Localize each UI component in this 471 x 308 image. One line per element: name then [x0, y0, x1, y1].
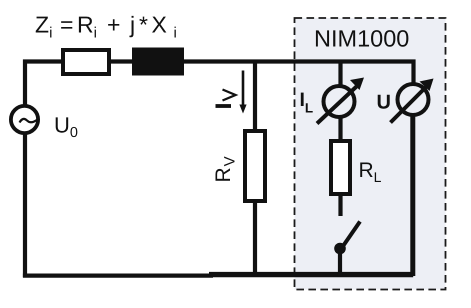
voltmeter U (circle with arrow) [391, 79, 434, 123]
wire left (below source down to bottom-left corner) [23, 133, 27, 277]
NIM1000 enclosure (dashed box) [295, 18, 446, 290]
wire ammeter to R_L [338, 118, 342, 141]
wire top (left corner to U-meter corner) [25, 62, 414, 108]
wire to ammeter I_L (from top wire down) [338, 62, 342, 86]
wire voltmeter down right side to bottom [410, 116, 415, 276]
svg-text:NIM1000: NIM1000 [314, 26, 409, 52]
AC source U0 [11, 106, 38, 133]
wire bottom (right segment) [209, 272, 413, 277]
ammeter I_L (circle with arrow) [317, 78, 364, 124]
wire R_V branch (junction on top wire down to resistor) [253, 62, 257, 132]
switch S (blade and contact dot) [334, 222, 360, 277]
label I_V (rotated, phasor bar + V chevron) [216, 90, 236, 107]
wire bottom (left segment) [23, 274, 213, 278]
reactance X_i (black box on top wire) [132, 48, 184, 76]
resistor R_V [245, 131, 265, 201]
wire R_L to switch [338, 194, 342, 216]
svg-text:U: U [377, 92, 391, 114]
wire R_V to bottom [253, 201, 257, 276]
resistor R_L [331, 141, 350, 194]
resistor R_i (white box on top wire) [63, 50, 109, 74]
current arrow I_V (downward) [239, 71, 246, 114]
